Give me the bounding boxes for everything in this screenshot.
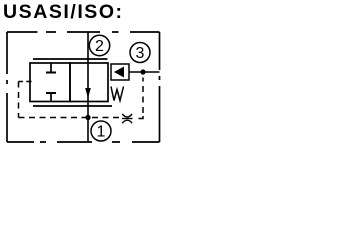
spring W [111, 87, 124, 101]
junction node at port 1 line [85, 115, 90, 120]
title USASI/ISO [3, 1, 124, 24]
pilot triangle [114, 67, 124, 78]
svg-text:2: 2 [95, 38, 104, 55]
port 1 circle [91, 121, 111, 141]
control orifice [122, 114, 133, 123]
dashed pilot line: left horizontal dash [19, 81, 24, 83]
dashed pilot line: bottom horizontal [19, 117, 122, 119]
valve body: left position box [30, 63, 70, 102]
pilot actuator box [111, 64, 129, 80]
dashed pilot line: right vertical up to port 3 junction [142, 78, 144, 114]
port 3 circle [130, 43, 150, 63]
dashed pilot line: left vertical [18, 82, 20, 118]
dashed pilot line: corner dash at orifice right [139, 116, 144, 119]
infinite-positioning line (bottom) [33, 105, 112, 107]
svg-text:1: 1 [97, 124, 106, 141]
valve body: right position box [70, 63, 108, 102]
infinite-positioning line (top) [33, 58, 108, 60]
blocked port T (top, left box) [46, 63, 56, 73]
wire: pilot to port 3 [129, 71, 160, 73]
pilot stub on left of valve [26, 81, 31, 83]
valve envelope (long-dash boundary) [7, 32, 160, 142]
svg-text:3: 3 [136, 45, 145, 62]
blocked port T (bottom, left box) [46, 93, 56, 102]
port 2 circle [89, 35, 109, 55]
flow arrow (down) in right box [85, 88, 91, 98]
junction node at port 3 line [140, 69, 145, 74]
wire: port 2 / port 1 flow line (vertical x=88) [87, 32, 89, 142]
